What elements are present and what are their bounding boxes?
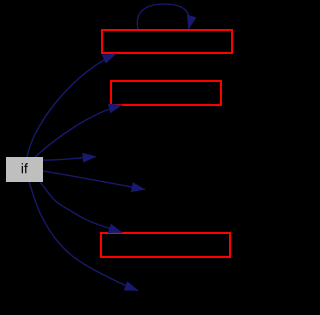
edge if to hidden node A bbox=[43, 157, 96, 161]
label if bbox=[22, 163, 28, 173]
edge if to box2 bbox=[35, 105, 122, 157]
edge if to box3 bbox=[40, 182, 122, 233]
edge if to hidden node C bbox=[29, 182, 138, 291]
edge if to hidden node B bbox=[43, 171, 145, 190]
node if (grey current node) bbox=[6, 157, 43, 182]
node box2 (middle red box) bbox=[111, 81, 221, 105]
node box3 (bottom red box) bbox=[101, 233, 230, 257]
edge if to box1 bbox=[27, 54, 116, 157]
edge self-loop on box1 bbox=[137, 4, 189, 29]
node box1 (top red box) bbox=[102, 30, 232, 53]
